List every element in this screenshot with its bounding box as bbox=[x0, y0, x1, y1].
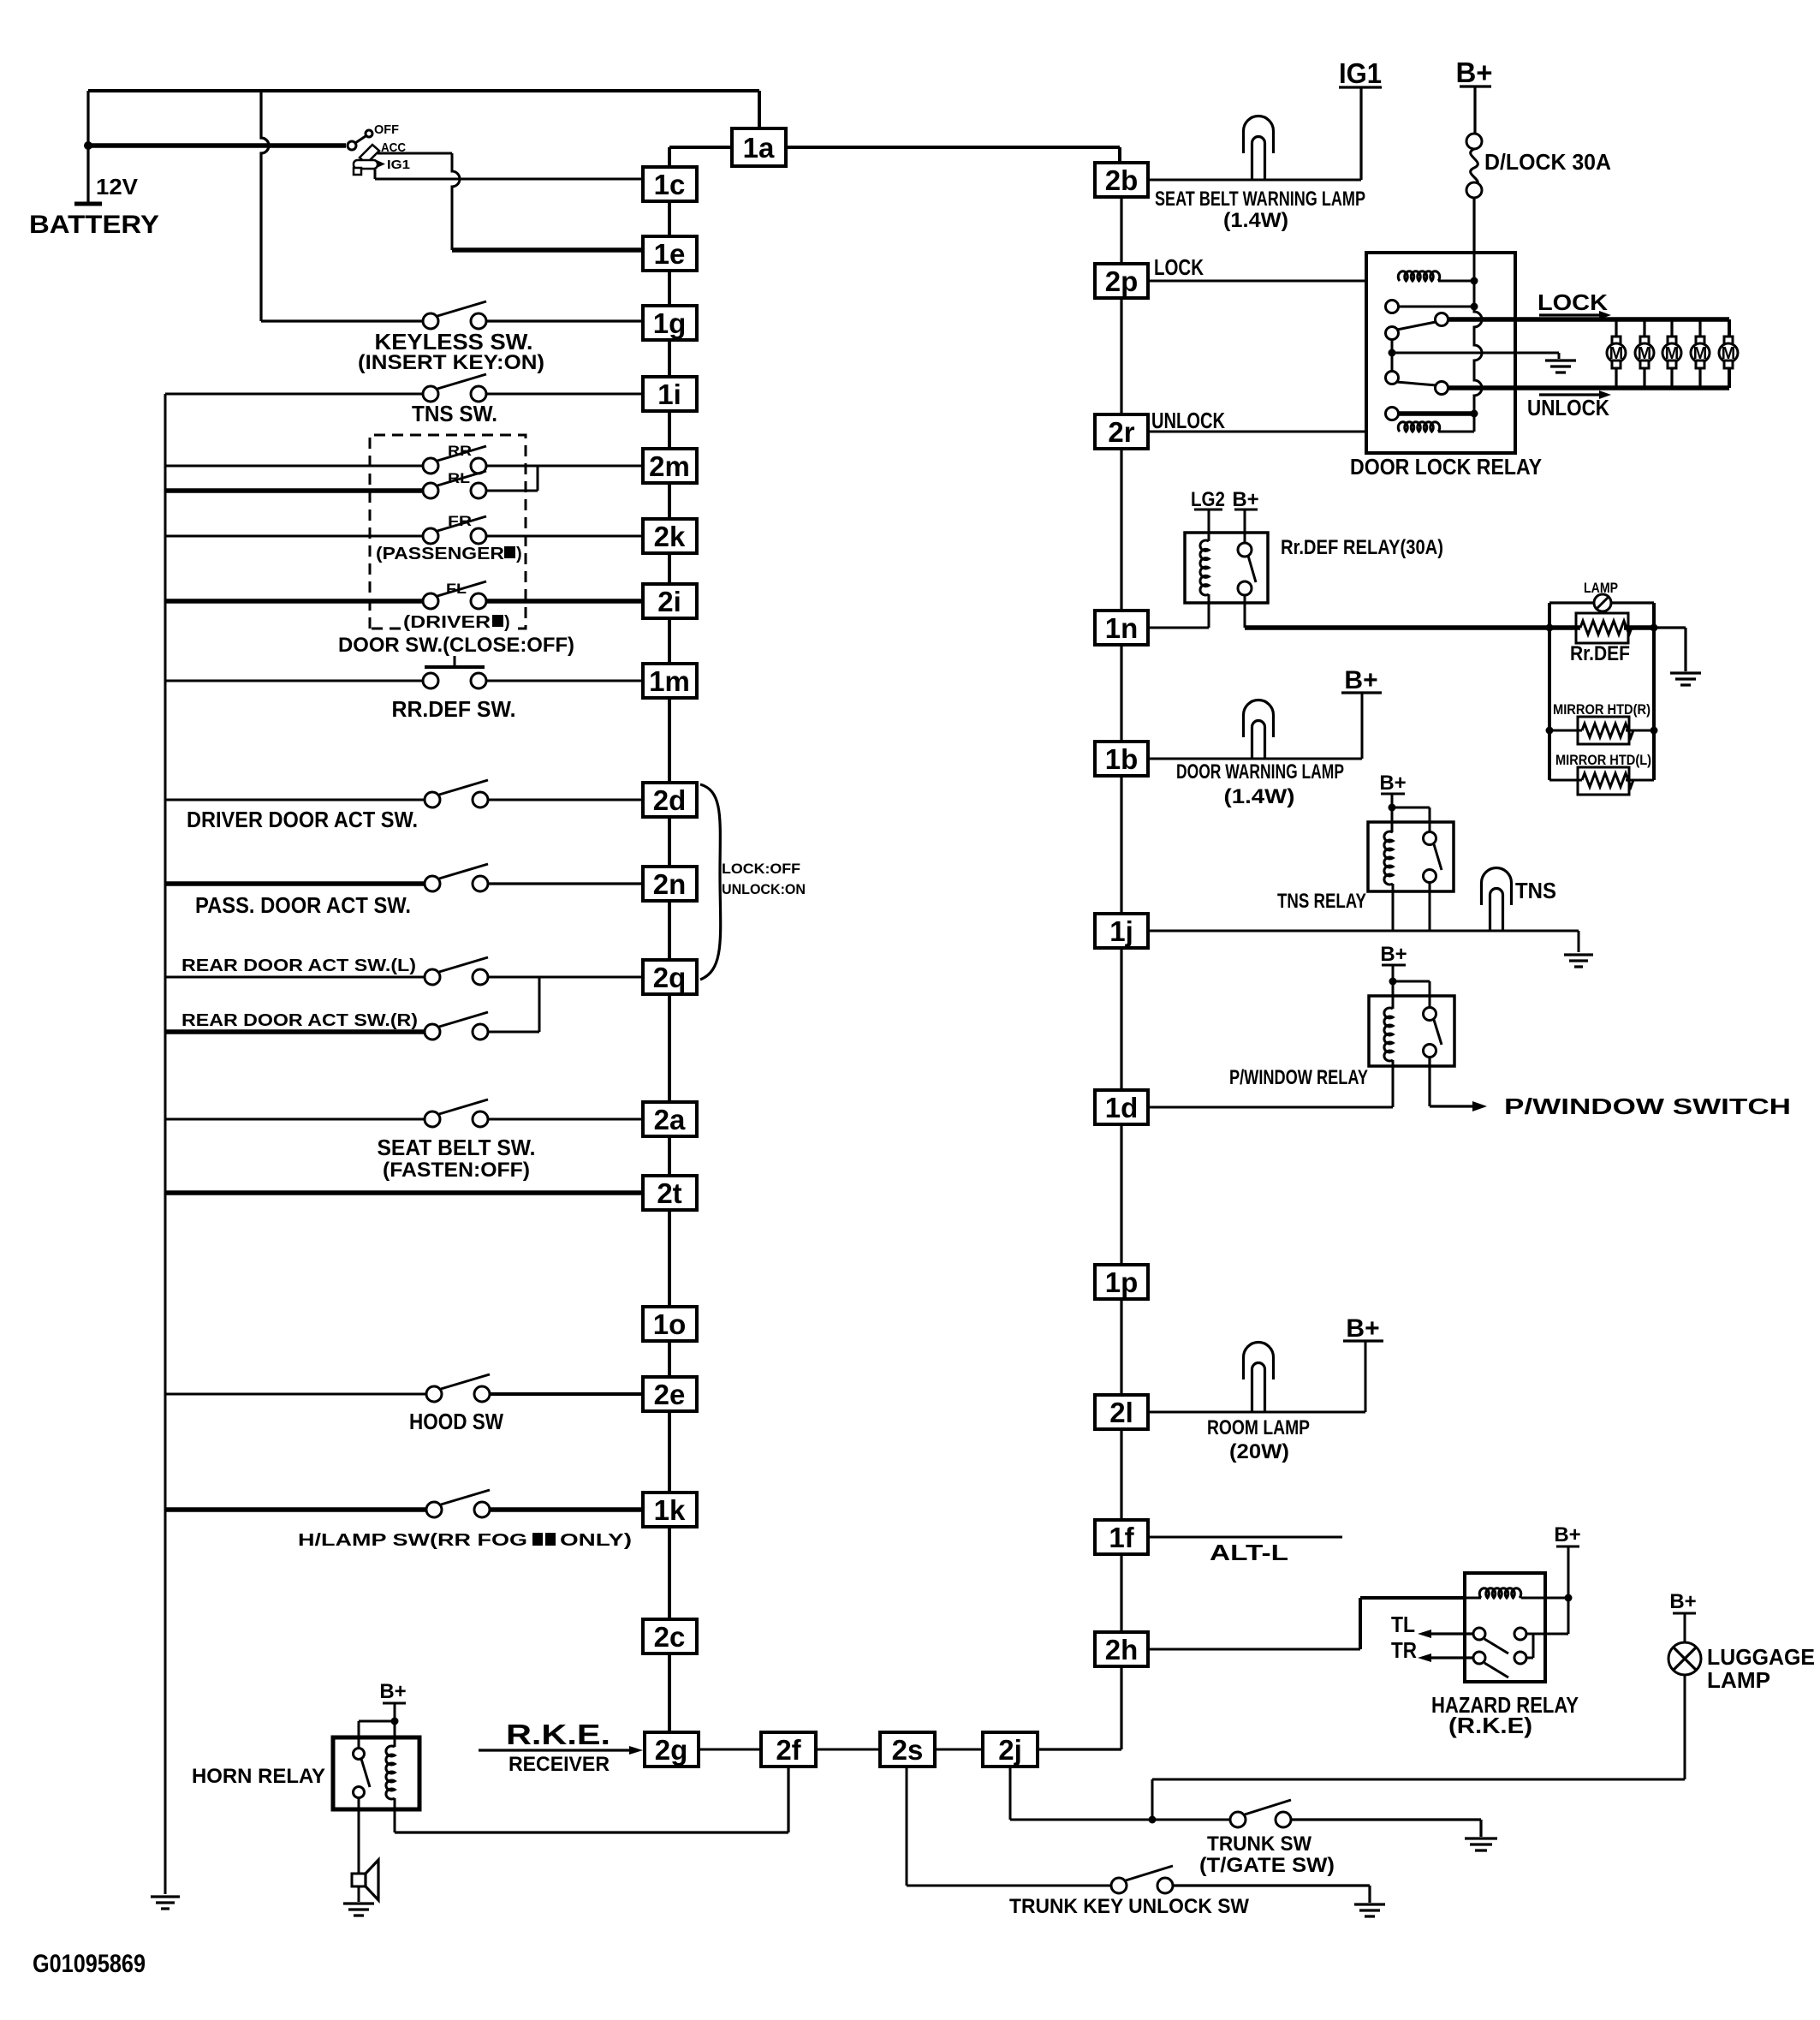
hazard relay TL contacts bbox=[1473, 1628, 1485, 1640]
connector 1m bbox=[643, 664, 697, 698]
tns relay box bbox=[1368, 822, 1454, 891]
connector 1b bbox=[1095, 742, 1148, 776]
connector 1p bbox=[1095, 1265, 1148, 1299]
wire rr.def to ground bbox=[1654, 628, 1686, 671]
tns relay contacts bbox=[1424, 832, 1436, 845]
lamp door warning lamp bbox=[1244, 700, 1274, 738]
wire 2c to 2g bbox=[668, 1654, 670, 1732]
horn relay box bbox=[333, 1737, 419, 1809]
right bus bbox=[1038, 197, 1121, 1749]
door lock relay pivot 2 bbox=[1386, 372, 1399, 384]
wire pass door act sw right bbox=[488, 882, 643, 885]
connector 1f bbox=[1095, 1520, 1148, 1554]
svg-text:Rr.DEF RELAY(30A): Rr.DEF RELAY(30A) bbox=[1281, 536, 1443, 559]
svg-text:DRIVER DOOR ACT SW.: DRIVER DOOR ACT SW. bbox=[187, 807, 418, 832]
luggage lamp bbox=[1668, 1642, 1701, 1675]
wire 2j to trunk sw bbox=[1010, 1767, 1230, 1820]
svg-text:2a: 2a bbox=[654, 1104, 686, 1135]
wire ACC to 1e bbox=[378, 152, 452, 155]
wire trunk sw to ground bbox=[1291, 1820, 1481, 1837]
junction battery feed bbox=[84, 141, 92, 150]
svg-text:(1.4W): (1.4W) bbox=[1224, 785, 1295, 808]
wire luggage lamp to trunk sw bbox=[1152, 1675, 1685, 1820]
ground trunk key sw bbox=[1354, 1904, 1385, 1916]
svg-text:UNLOCK: UNLOCK bbox=[1527, 395, 1609, 420]
svg-text:1e: 1e bbox=[654, 238, 686, 270]
svg-text:MIRROR HTD(R): MIRROR HTD(R) bbox=[1553, 701, 1650, 718]
connector 2e bbox=[643, 1377, 697, 1411]
door lock relay bus with hops bbox=[1474, 253, 1482, 432]
svg-text:B+: B+ bbox=[1232, 488, 1258, 511]
ignition ACC contact bar bbox=[360, 145, 379, 164]
svg-text:BATTERY: BATTERY bbox=[29, 211, 159, 239]
resistor Rr.DEF bbox=[1576, 613, 1628, 643]
svg-text:LOCK:OFF: LOCK:OFF bbox=[722, 861, 800, 877]
connector 2m bbox=[643, 449, 697, 483]
ignition switch lever bbox=[355, 136, 366, 143]
svg-text:2n: 2n bbox=[653, 868, 687, 900]
svg-text:HORN RELAY: HORN RELAY bbox=[192, 1765, 325, 1788]
hazard relay TR contacts bbox=[1473, 1652, 1485, 1664]
svg-text:TRUNK SW: TRUNK SW bbox=[1207, 1832, 1311, 1856]
trunk key unlock switch bbox=[1111, 1878, 1127, 1893]
door lock relay fixed contact 1 bbox=[1386, 301, 1399, 313]
resistor mirror heater L bbox=[1578, 767, 1629, 795]
ground trunk sw bbox=[1465, 1838, 1497, 1850]
wire keyless to 1g bbox=[486, 319, 643, 322]
bracket lock/unlock 2d-2q bbox=[700, 784, 721, 980]
svg-text:B+: B+ bbox=[1346, 1314, 1379, 1343]
ignition OFF contact bbox=[366, 130, 372, 137]
connector 2c bbox=[643, 1619, 697, 1654]
svg-text:B+: B+ bbox=[1669, 1590, 1696, 1613]
label UNLOCK arrow bbox=[1539, 393, 1599, 396]
RR.DEF switch plunger bbox=[425, 665, 485, 669]
wire 2f to 2s bbox=[816, 1749, 880, 1751]
wire IG1 riser bbox=[1359, 86, 1362, 180]
ground door lock common bbox=[1545, 361, 1576, 372]
wire B+ horn bbox=[394, 1703, 396, 1721]
wire 2s to trunk key sw bbox=[907, 1767, 1111, 1886]
connector 2q bbox=[643, 960, 697, 994]
svg-text:TNS RELAY: TNS RELAY bbox=[1277, 890, 1366, 913]
wire pass door act sw left bbox=[165, 881, 425, 886]
svg-text:TL: TL bbox=[1391, 1612, 1415, 1637]
connector 2i bbox=[643, 584, 697, 618]
switch rear door act sw R bbox=[425, 1024, 440, 1040]
wire B+ to contact bbox=[1244, 509, 1246, 543]
ground tns bbox=[1564, 955, 1593, 967]
connector 1d bbox=[1095, 1090, 1148, 1124]
svg-text:(FASTEN:OFF): (FASTEN:OFF) bbox=[383, 1159, 530, 1182]
left bus bbox=[668, 201, 671, 1732]
wire hood sw right bbox=[490, 1392, 643, 1396]
connector 2g bbox=[645, 1732, 699, 1767]
wire battery feed to ignition switch bbox=[88, 143, 346, 148]
svg-text:(R.K.E): (R.K.E) bbox=[1448, 1713, 1532, 1738]
svg-text:2g: 2g bbox=[655, 1734, 688, 1766]
wire IG1 to 1c bbox=[375, 170, 643, 179]
svg-text:(20W): (20W) bbox=[1229, 1440, 1289, 1463]
svg-text:MIRROR HTD(L): MIRROR HTD(L) bbox=[1555, 752, 1651, 768]
svg-text:1c: 1c bbox=[654, 169, 686, 200]
wire 1d to coil bbox=[1149, 1106, 1393, 1109]
svg-text:2p: 2p bbox=[1105, 265, 1139, 297]
wire trunk key sw to ground bbox=[1173, 1886, 1370, 1903]
svg-text:2h: 2h bbox=[1105, 1634, 1139, 1665]
wire motor bus ends bbox=[1728, 319, 1731, 388]
wire to 2t bbox=[165, 1190, 643, 1195]
connector 1i bbox=[643, 377, 697, 411]
svg-text:ONLY): ONLY) bbox=[560, 1531, 632, 1550]
fuse D/LOCK 30A bbox=[1466, 134, 1482, 149]
wire TR link bbox=[1526, 1634, 1533, 1658]
arrow TL bbox=[1431, 1632, 1473, 1635]
switch hood sw bbox=[426, 1386, 442, 1402]
svg-text:HOOD SW: HOOD SW bbox=[409, 1409, 503, 1434]
svg-text:LOCK: LOCK bbox=[1154, 254, 1204, 280]
ground horn bbox=[343, 1904, 374, 1916]
horn relay coil bbox=[394, 1721, 396, 1747]
connector 2t bbox=[643, 1176, 697, 1210]
connector 2d bbox=[643, 783, 697, 817]
svg-text:B+: B+ bbox=[1455, 57, 1492, 88]
wire h/lamp sw left bbox=[165, 1507, 426, 1512]
wire rf.def contact output bbox=[1244, 595, 1246, 628]
svg-text:(T/GATE SW): (T/GATE SW) bbox=[1199, 1854, 1335, 1877]
p/window relay contacts bbox=[1424, 1008, 1436, 1021]
wire relay common to ground bbox=[1392, 353, 1559, 359]
svg-text:B+: B+ bbox=[379, 1680, 406, 1703]
svg-text:2t: 2t bbox=[657, 1177, 681, 1209]
svg-text:2e: 2e bbox=[654, 1379, 686, 1410]
svg-text:2r: 2r bbox=[1108, 416, 1134, 448]
switch door sw RL bbox=[423, 483, 438, 498]
wire TNS SW left bbox=[165, 393, 423, 396]
svg-text:LG2: LG2 bbox=[1191, 488, 1225, 511]
wire tns contact out bbox=[1429, 882, 1431, 931]
svg-text:1i: 1i bbox=[657, 378, 681, 410]
wire LG2 to coil bbox=[1208, 509, 1210, 541]
svg-text:PASS. DOOR ACT SW.: PASS. DOOR ACT SW. bbox=[195, 892, 411, 918]
lamp TNS lamp bbox=[1482, 868, 1512, 905]
door lock relay coil 2 bbox=[1398, 422, 1439, 432]
rr.def top rail with lamp bbox=[1549, 601, 1594, 604]
svg-text:1m: 1m bbox=[649, 665, 690, 697]
connector 2a bbox=[643, 1102, 697, 1136]
svg-text:DOOR SW.(CLOSE:OFF): DOOR SW.(CLOSE:OFF) bbox=[338, 634, 574, 657]
ignition IG1 arrow bbox=[377, 160, 385, 168]
svg-text:1p: 1p bbox=[1105, 1266, 1139, 1298]
door lock relay fixed contact 2 bbox=[1386, 408, 1399, 420]
svg-text:1a: 1a bbox=[743, 132, 775, 164]
svg-text:DOOR LOCK RELAY: DOOR LOCK RELAY bbox=[1350, 454, 1542, 480]
svg-text:1n: 1n bbox=[1105, 612, 1139, 644]
svg-text:(1.4W): (1.4W) bbox=[1223, 209, 1288, 232]
wire horn contact feed bbox=[359, 1721, 395, 1749]
rr.def rail right bbox=[1652, 603, 1656, 780]
svg-text:ROOM LAMP: ROOM LAMP bbox=[1207, 1416, 1310, 1439]
door lock motor M1888 bbox=[1612, 337, 1621, 344]
wire B+ to fuse bbox=[1473, 86, 1476, 134]
svg-text:(INSERT KEY:ON): (INSERT KEY:ON) bbox=[358, 351, 544, 374]
wire rear R to 2q riser bbox=[488, 977, 539, 1032]
connector 2r bbox=[1095, 414, 1148, 449]
wire 2l to B+ bbox=[1148, 1341, 1365, 1412]
wire horn coil to 2f bbox=[395, 1767, 788, 1832]
svg-text:2s: 2s bbox=[892, 1734, 924, 1766]
junction dots rr.def bbox=[1546, 624, 1554, 632]
switch door sw RR bbox=[423, 458, 438, 474]
connector 2l bbox=[1095, 1395, 1148, 1429]
wire RR.DEF SW left bbox=[165, 680, 423, 682]
svg-text:Rr.DEF: Rr.DEF bbox=[1570, 642, 1630, 665]
svg-text:2f: 2f bbox=[776, 1734, 801, 1766]
switch seat belt sw bbox=[425, 1111, 440, 1127]
door lock relay moving contact UNLOCK bbox=[1436, 382, 1448, 395]
door lock relay coil 1 bbox=[1398, 271, 1439, 281]
svg-text:TNS SW.: TNS SW. bbox=[412, 401, 497, 426]
wire 2p to door lock relay coil bbox=[1148, 280, 1400, 283]
wire RR.DEF SW right bbox=[486, 680, 643, 682]
svg-text:2j: 2j bbox=[998, 1734, 1022, 1766]
svg-text:(DRIVER: (DRIVER bbox=[403, 613, 491, 632]
resistor mirror heater R bbox=[1578, 717, 1629, 744]
wire driver door act sw left bbox=[165, 799, 425, 801]
svg-text:2c: 2c bbox=[654, 1621, 686, 1653]
wire hood sw left bbox=[165, 1393, 426, 1396]
connector 2f bbox=[761, 1732, 816, 1767]
horn relay contacts bbox=[354, 1749, 365, 1760]
switch RR.DEF SW bbox=[423, 673, 438, 688]
svg-text:TNS: TNS bbox=[1515, 878, 1556, 903]
door lock relay pivot link bbox=[1391, 339, 1394, 372]
tns relay coil bbox=[1391, 807, 1394, 832]
wire door sw FL left bbox=[165, 599, 423, 604]
wire 1a right to 2b bbox=[786, 147, 1120, 163]
svg-text:ALT-L: ALT-L bbox=[1210, 1540, 1288, 1565]
wire fuse to relay bbox=[1472, 198, 1475, 253]
svg-text:R.K.E.: R.K.E. bbox=[506, 1719, 610, 1750]
ignition switch pivot bbox=[348, 141, 356, 150]
svg-text:RR.DEF SW.: RR.DEF SW. bbox=[392, 696, 516, 722]
arrow RKE to 2g bbox=[479, 1749, 629, 1751]
wire door sw RL left bbox=[165, 488, 423, 493]
svg-text:2d: 2d bbox=[653, 784, 687, 816]
svg-text:1b: 1b bbox=[1105, 743, 1139, 775]
svg-text:2q: 2q bbox=[653, 962, 687, 993]
door lock motor M2019 bbox=[1724, 337, 1733, 344]
wire door sw RR right bbox=[486, 465, 643, 468]
connector 2b bbox=[1095, 163, 1148, 197]
svg-text:1g: 1g bbox=[653, 307, 687, 339]
battery top wire bbox=[88, 89, 759, 92]
connector 1j bbox=[1095, 914, 1148, 948]
rf.def relay coil bbox=[1200, 540, 1209, 595]
battery 12V bbox=[86, 91, 89, 204]
wire 2b to IG1 bbox=[1148, 179, 1361, 182]
wire 2s to 2j bbox=[934, 1749, 983, 1751]
svg-text:1k: 1k bbox=[654, 1494, 686, 1526]
door lock motor M1921 bbox=[1640, 337, 1649, 344]
svg-text:): ) bbox=[504, 613, 510, 632]
svg-text:D/LOCK 30A: D/LOCK 30A bbox=[1484, 149, 1611, 175]
svg-text:DOOR WARNING LAMP: DOOR WARNING LAMP bbox=[1176, 760, 1344, 784]
connector 2j bbox=[983, 1732, 1038, 1767]
connector 1c bbox=[643, 167, 697, 201]
svg-text:1f: 1f bbox=[1109, 1522, 1134, 1553]
door lock motor M1986 bbox=[1696, 337, 1704, 344]
connector 1a bbox=[732, 128, 786, 166]
wire LOCK output bbox=[1448, 317, 1729, 322]
connector 1e bbox=[643, 236, 697, 271]
wire rear door act sw L left bbox=[165, 976, 425, 979]
wire 1f ALT-L bbox=[1148, 1536, 1342, 1539]
connector 2k bbox=[643, 519, 697, 553]
svg-text:LUGGAGE: LUGGAGE bbox=[1707, 1644, 1815, 1670]
wire RL to 2m riser bbox=[486, 466, 538, 491]
svg-text:IG1: IG1 bbox=[387, 158, 410, 172]
switch driver door act sw bbox=[425, 792, 440, 807]
trunk switch bbox=[1230, 1812, 1246, 1827]
hazard relay box bbox=[1465, 1573, 1545, 1682]
svg-text:SEAT BELT WARNING LAMP: SEAT BELT WARNING LAMP bbox=[1155, 188, 1365, 211]
svg-text:LAMP: LAMP bbox=[1584, 580, 1618, 596]
svg-text:OFF: OFF bbox=[374, 122, 399, 137]
connector 2p bbox=[1095, 264, 1148, 298]
rf.def relay box bbox=[1185, 533, 1268, 603]
svg-text:12V: 12V bbox=[96, 174, 139, 200]
connector 2h bbox=[1095, 1632, 1148, 1666]
svg-text:(PASSENGER: (PASSENGER bbox=[376, 545, 505, 563]
svg-text:P/WINDOW SWITCH: P/WINDOW SWITCH bbox=[1504, 1093, 1791, 1119]
connector 2n bbox=[643, 867, 697, 901]
wire B+ hazard down bbox=[1526, 1546, 1568, 1634]
keyless switch bbox=[423, 313, 438, 329]
horn speaker bbox=[352, 1874, 366, 1886]
ground rr.def bbox=[1670, 673, 1701, 685]
connector 1o bbox=[643, 1307, 697, 1341]
wire 1j tns run bbox=[1149, 931, 1579, 952]
svg-text:B+: B+ bbox=[1344, 666, 1377, 694]
p/window relay coil bbox=[1392, 981, 1395, 1009]
wire B+ luggage bbox=[1684, 1613, 1686, 1642]
wire h/lamp sw right bbox=[490, 1507, 643, 1512]
svg-text:1d: 1d bbox=[1105, 1092, 1139, 1123]
wire B+ p/window bbox=[1393, 965, 1430, 1008]
svg-text:B+: B+ bbox=[1554, 1523, 1580, 1546]
svg-text:SEAT BELT SW.: SEAT BELT SW. bbox=[378, 1135, 536, 1160]
svg-text:G01095869: G01095869 bbox=[33, 1950, 146, 1978]
wire 1a left to 1c bbox=[669, 147, 732, 167]
svg-text:RECEIVER: RECEIVER bbox=[509, 1753, 610, 1776]
keyless switch wire bbox=[261, 319, 423, 322]
wire 2r to door lock relay coil2 bbox=[1149, 431, 1400, 433]
wire vertical battery branch with hop bbox=[261, 91, 269, 321]
door lock motor M1953 bbox=[1668, 337, 1676, 344]
door lock relay pivot 1 bbox=[1386, 327, 1399, 340]
ignition key symbol bbox=[354, 160, 378, 169]
wire door sw RR left bbox=[165, 465, 423, 468]
wire rear door act sw L right bbox=[488, 976, 643, 979]
wire p/window switch arrow bbox=[1430, 1057, 1472, 1106]
svg-text:IG1: IG1 bbox=[1339, 57, 1382, 89]
door lock relay box bbox=[1366, 253, 1515, 453]
svg-text:LAMP: LAMP bbox=[1707, 1667, 1770, 1693]
svg-text:TRUNK KEY UNLOCK SW: TRUNK KEY UNLOCK SW bbox=[1009, 1895, 1249, 1918]
wire door sw FL right bbox=[486, 599, 643, 604]
svg-text:2i: 2i bbox=[657, 586, 681, 617]
svg-text:UNLOCK: UNLOCK bbox=[1151, 408, 1225, 433]
switch door sw FR bbox=[423, 528, 438, 544]
svg-text:2m: 2m bbox=[649, 450, 690, 482]
wire 1n to coil bbox=[1148, 594, 1209, 628]
wire seat belt sw right bbox=[488, 1118, 643, 1121]
arrow TR bbox=[1431, 1656, 1473, 1659]
wire 1a top drop bbox=[758, 91, 761, 128]
svg-text:): ) bbox=[516, 545, 522, 563]
wire 2h to hazard coil bbox=[1148, 1648, 1360, 1651]
lamp room lamp bbox=[1244, 1343, 1274, 1380]
wire UNLOCK output bbox=[1448, 385, 1729, 390]
connector 1g bbox=[643, 306, 697, 340]
svg-text:1o: 1o bbox=[653, 1308, 687, 1340]
wire 1b to B+ bbox=[1149, 693, 1362, 759]
wire 2g to 2f bbox=[699, 1749, 761, 1751]
wire seat belt sw left bbox=[165, 1118, 425, 1121]
svg-text:TR: TR bbox=[1391, 1637, 1417, 1663]
switch h/lamp sw bbox=[426, 1502, 442, 1517]
left rail bus bbox=[164, 394, 167, 1894]
svg-text:H/LAMP SW(RR FOG: H/LAMP SW(RR FOG bbox=[298, 1531, 527, 1550]
svg-text:REAR DOOR ACT SW.(R): REAR DOOR ACT SW.(R) bbox=[181, 1011, 418, 1030]
svg-text:B+: B+ bbox=[1379, 772, 1406, 795]
wire rear door act sw R left bbox=[165, 1029, 425, 1034]
wire door sw FR right bbox=[486, 535, 643, 538]
svg-text:REAR DOOR ACT SW.(L): REAR DOOR ACT SW.(L) bbox=[181, 956, 416, 975]
switch pass door act sw bbox=[425, 876, 440, 891]
svg-text:UNLOCK:ON: UNLOCK:ON bbox=[722, 881, 806, 897]
rr.def rail left bbox=[1548, 603, 1551, 780]
p/window relay box bbox=[1369, 996, 1454, 1066]
svg-text:P/WINDOW RELAY: P/WINDOW RELAY bbox=[1229, 1066, 1368, 1089]
wire driver door act sw right bbox=[488, 799, 643, 801]
svg-text:B+: B+ bbox=[1380, 943, 1407, 966]
door lock relay moving contact LOCK bbox=[1436, 313, 1448, 326]
wire horn contact to speaker bbox=[358, 1797, 360, 1874]
dashed door switch box bbox=[370, 435, 526, 629]
switch rear door act sw L bbox=[425, 969, 440, 985]
wire B+ tns bbox=[1392, 794, 1430, 832]
ground left rail bbox=[151, 1897, 180, 1909]
rf.def relay contacts bbox=[1238, 543, 1252, 557]
hazard relay coil bbox=[1465, 1597, 1481, 1600]
svg-text:2k: 2k bbox=[654, 521, 686, 552]
wire TNS SW right bbox=[486, 393, 643, 396]
wire door sw FR left bbox=[165, 535, 423, 538]
connector 1n bbox=[1095, 611, 1148, 645]
svg-text:2l: 2l bbox=[1109, 1397, 1133, 1428]
connector 2s bbox=[880, 1732, 935, 1767]
svg-text:1j: 1j bbox=[1109, 915, 1133, 947]
connector 1k bbox=[643, 1493, 697, 1527]
svg-text:2b: 2b bbox=[1105, 164, 1139, 196]
svg-text:LOCK: LOCK bbox=[1537, 289, 1608, 315]
switch door sw FL bbox=[423, 593, 438, 609]
lamp seat belt warning lamp bbox=[1244, 116, 1274, 154]
switch TNS SW bbox=[423, 386, 438, 402]
